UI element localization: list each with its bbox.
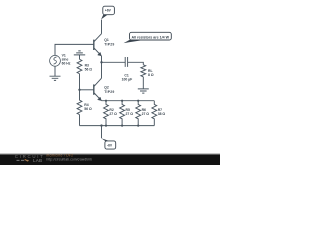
svg-text:Q1: Q1 xyxy=(104,38,109,42)
svg-text:60 Hz: 60 Hz xyxy=(62,62,71,66)
wire V1 top to Q1 base xyxy=(55,44,94,55)
wire R4 to bottom rail xyxy=(79,115,81,126)
label RL 8 ohm xyxy=(148,69,154,77)
wire bottom rail to -6V xyxy=(101,126,103,139)
resistor R6 xyxy=(136,101,141,126)
voltage source V1 xyxy=(50,55,61,66)
label R4 56 ohm xyxy=(84,103,92,111)
svg-text:http:∕∕circuitlab.com∕c∕awdtmb: http:∕∕circuitlab.com∕c∕awdtmb xyxy=(47,158,93,162)
+6V callout xyxy=(101,6,114,19)
svg-text:56 Ω: 56 Ω xyxy=(84,107,92,111)
wire node to Q2 base xyxy=(80,89,94,91)
wire RL to ground xyxy=(142,77,144,89)
svg-text:TIP29: TIP29 xyxy=(104,42,114,46)
svg-text:27 Ω: 27 Ω xyxy=(109,112,117,116)
svg-text:27 Ω: 27 Ω xyxy=(142,112,150,116)
wire C1 to RL xyxy=(128,62,144,65)
ground under V1 xyxy=(50,76,61,80)
watermark bar xyxy=(0,153,220,165)
svg-text:56 Ω: 56 Ω xyxy=(85,67,93,71)
svg-text:All resistors are 1/4 W: All resistors are 1/4 W xyxy=(132,35,170,39)
top rail (Q2 emitter bus) xyxy=(102,100,155,102)
resistor R2 xyxy=(104,101,109,126)
wire R3 to node xyxy=(79,74,81,90)
node output junction xyxy=(100,61,102,63)
bottom rail xyxy=(80,125,155,127)
resistor R4 xyxy=(77,100,82,114)
label Q1 TIP29 xyxy=(104,38,114,47)
ground under RL xyxy=(138,89,149,93)
wire node to C1 xyxy=(102,61,126,63)
note callout: All resistors are 1/4 W xyxy=(124,32,172,43)
label R3 56 ohm xyxy=(85,63,93,71)
svg-text:TIP29: TIP29 xyxy=(104,90,114,94)
svg-text:+6V: +6V xyxy=(105,9,112,13)
wire Q1 emitter / Q2 collector rail xyxy=(101,56,103,78)
ground (inverted) above R3 xyxy=(74,51,85,59)
resistor R5 xyxy=(120,101,125,126)
resistor R3 xyxy=(77,59,82,73)
wire V1 bottom to ground xyxy=(54,66,56,76)
resistor R7 xyxy=(152,101,157,126)
wire node down to R4 xyxy=(79,90,81,100)
svg-text:Q2: Q2 xyxy=(104,86,109,90)
label Q2 TIP29 xyxy=(104,86,114,95)
resistor RL xyxy=(141,65,146,77)
transistor Q1 TIP29 (NPN) xyxy=(94,34,102,56)
capacitor C1 xyxy=(125,57,127,67)
svg-text:-6V: -6V xyxy=(107,143,113,147)
transistor Q2 TIP29 (NPN) xyxy=(94,78,102,101)
svg-text:LAB: LAB xyxy=(33,158,42,163)
wire Q1 collector up xyxy=(101,20,103,34)
svg-text:100 µF: 100 µF xyxy=(122,78,133,82)
label V1 sine 60 Hz xyxy=(62,54,71,66)
-6V callout xyxy=(101,138,115,149)
svg-text:8 Ω: 8 Ω xyxy=(148,73,154,77)
label C1 100uF xyxy=(122,74,133,82)
svg-text:27 Ω: 27 Ω xyxy=(126,112,134,116)
svg-text:38 Ω: 38 Ω xyxy=(158,112,166,116)
node junction R3/R4/Q2-base xyxy=(78,89,80,91)
